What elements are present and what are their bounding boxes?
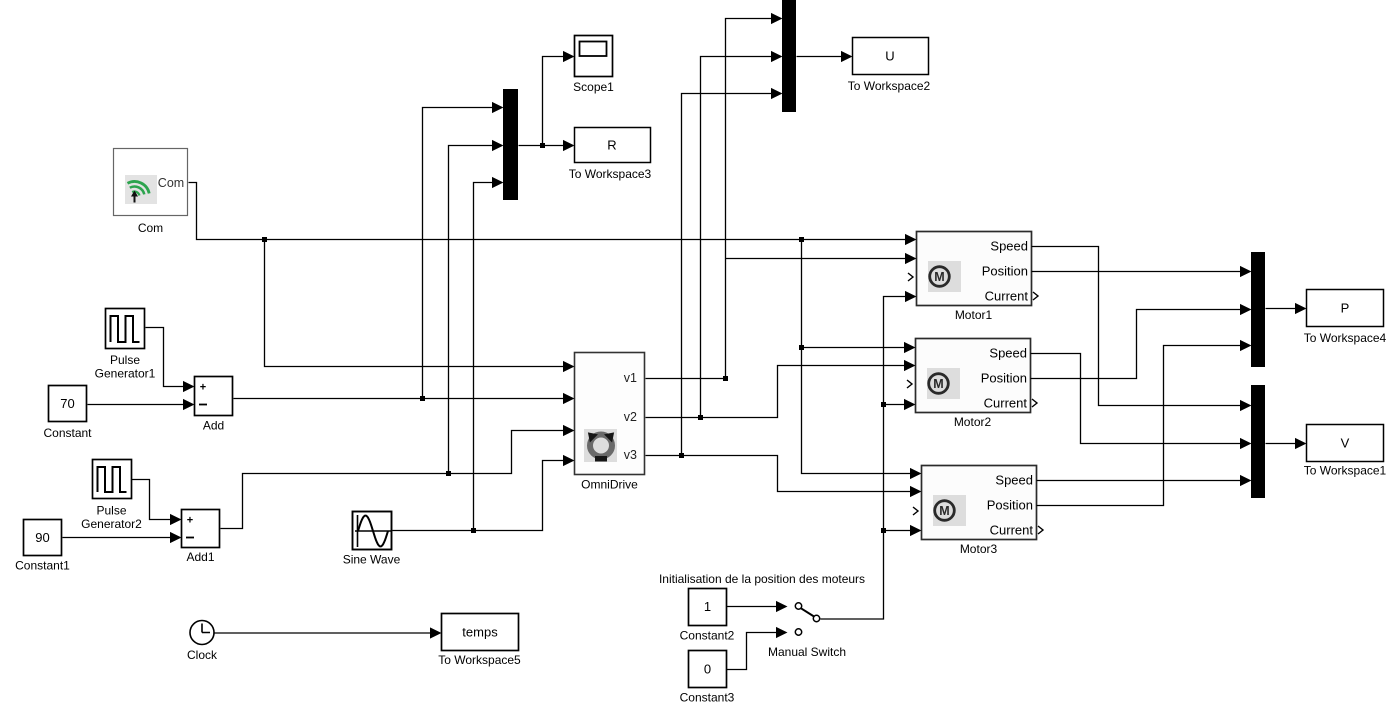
svg-text:R: R: [607, 138, 616, 153]
block Com (communication source): [114, 149, 188, 216]
wire OmniDrive v1 output to Mux2 input1 and Motor1 in2: [646, 13, 917, 379]
wire branch up to Mux1 input1: [423, 102, 504, 399]
svg-text:Constant: Constant: [43, 426, 92, 440]
svg-text:Speed: Speed: [990, 239, 1028, 254]
block Clock: [190, 621, 214, 645]
svg-text:Add: Add: [203, 419, 224, 433]
svg-text:Pulse: Pulse: [110, 353, 140, 367]
wire Add output to OmniDrive v2 input: [234, 393, 575, 404]
block Constant3 value 0: [689, 651, 727, 688]
block Add1 (sum): [182, 510, 220, 548]
junction Sine Wave to Mux1 branch: [471, 528, 476, 533]
wire branch down to OmniDrive v1 input: [265, 240, 575, 373]
svg-text:Com: Com: [138, 221, 163, 235]
wire Mux2 output to U To Workspace2: [797, 51, 853, 62]
junction Manual Switch line to Motor3 in3: [881, 528, 886, 533]
svg-text:To Workspace4: To Workspace4: [1304, 331, 1387, 345]
block R To Workspace3: [575, 128, 651, 163]
svg-text:To Workspace1: To Workspace1: [1304, 464, 1387, 478]
junction Com line to OmniDrive branch: [262, 237, 267, 242]
block Sine Wave: [353, 512, 392, 550]
svg-text:U: U: [885, 49, 894, 64]
wire Constant1 90 to Add1 minus input: [63, 532, 182, 543]
wire branch to Motor3 in3: [884, 525, 922, 536]
svg-text:OmniDrive: OmniDrive: [581, 478, 638, 492]
block Motor2: [907, 339, 1037, 413]
wire Mux1 output to R To Workspace3: [519, 140, 575, 151]
svg-text:To Workspace5: To Workspace5: [438, 653, 521, 667]
svg-text:v3: v3: [624, 448, 637, 462]
svg-text:Motor2: Motor2: [954, 415, 992, 429]
svg-text:Sine Wave: Sine Wave: [343, 553, 401, 567]
wire branch up to Mux1 input3: [474, 177, 504, 531]
wire Pulse Generator1 to Add plus input: [146, 328, 195, 393]
wire Constant2 to Manual Switch input1: [727, 606, 777, 608]
svg-text:Motor1: Motor1: [955, 308, 993, 322]
svg-text:Scope1: Scope1: [573, 80, 614, 94]
block Motor3: [913, 466, 1043, 540]
svg-text:Current: Current: [984, 396, 1028, 411]
block U To Workspace2: [853, 38, 929, 75]
wire Constant3 to Manual Switch input2: [727, 633, 777, 670]
block Pulse Generator2: [93, 460, 132, 499]
svg-text:Add1: Add1: [186, 550, 214, 564]
svg-text:v2: v2: [624, 410, 637, 424]
svg-text:90: 90: [35, 530, 49, 545]
wire OmniDrive v2 output to Motor2 in2: [646, 360, 916, 418]
wire Pulse Generator2 to Add1 plus input: [132, 480, 182, 526]
mux Mux2 (3-input): [782, 0, 796, 112]
svg-text:Generator1: Generator1: [95, 367, 156, 381]
svg-text:70: 70: [60, 396, 74, 411]
wire Motor3 Speed to Mux4 input3: [1037, 475, 1252, 486]
wire Motor1 Speed to Mux4 input1: [1032, 247, 1252, 412]
svg-text:Constant2: Constant2: [680, 629, 735, 643]
junction Motor2 in1 branch: [799, 345, 804, 350]
wire Motor3 Position to Mux3 input3: [1037, 340, 1252, 506]
wire Mux3 output to P To Workspace4: [1266, 303, 1307, 314]
junction OmniDrive v3 to Mux2 branch: [679, 453, 684, 458]
junction Manual Switch line to Motor2 in3: [881, 402, 886, 407]
wire Com output down and across to Motor1 in1: [189, 183, 917, 246]
wire Manual Switch output up to Motor1 in3: [821, 291, 917, 619]
svg-text:+: +: [187, 515, 193, 527]
wire branch up to Mux1 input2: [449, 140, 504, 474]
junction Add1 output to Mux1 branch: [446, 471, 451, 476]
svg-text:To Workspace2: To Workspace2: [848, 79, 931, 93]
svg-text:Clock: Clock: [187, 648, 218, 662]
wire Motor1 Position to Mux3 input1: [1032, 266, 1252, 277]
svg-text:M: M: [934, 270, 944, 284]
svg-text:Com: Com: [158, 176, 184, 190]
svg-text:V: V: [1341, 436, 1350, 451]
junction Mux1 output to Scope1 branch: [540, 143, 545, 148]
block Constant value 70: [49, 386, 87, 422]
block temps To Workspace5: [442, 614, 519, 651]
wire Constant 70 to Add minus input: [88, 399, 195, 410]
svg-text:Generator2: Generator2: [81, 517, 142, 531]
wire Add1 output to OmniDrive v3 input: [221, 425, 575, 529]
svg-text:Initialisation de la position: Initialisation de la position des moteur…: [659, 572, 865, 586]
svg-text:To Workspace3: To Workspace3: [569, 167, 652, 181]
junction Add output to Mux1 branch: [420, 396, 425, 401]
svg-text:P: P: [1341, 301, 1350, 316]
junction Com line to Motor2/Motor3 branch: [799, 237, 804, 242]
block Constant1 value 90: [24, 520, 62, 556]
svg-text:Speed: Speed: [989, 346, 1027, 361]
svg-text:Current: Current: [990, 523, 1034, 538]
mux Mux4 (speeds): [1251, 385, 1265, 498]
svg-text:1: 1: [704, 599, 711, 614]
block Scope1: [575, 36, 613, 77]
svg-text:Constant1: Constant1: [15, 559, 70, 573]
junction OmniDrive v2 to Mux2 branch: [698, 415, 703, 420]
svg-text:+: +: [200, 382, 206, 394]
svg-text:Position: Position: [982, 264, 1028, 279]
block Motor1: [908, 232, 1038, 306]
svg-text:v1: v1: [624, 371, 637, 385]
svg-text:Motor3: Motor3: [960, 542, 998, 556]
wire branch up to Mux2 input2: [701, 51, 783, 418]
block OmniDrive: [575, 353, 645, 475]
wire branch up to Scope1: [543, 51, 575, 146]
svg-text:Current: Current: [985, 289, 1029, 304]
block Constant2 value 1: [689, 589, 727, 626]
mux Mux1 (3-input): [503, 89, 518, 200]
svg-text:Manual Switch: Manual Switch: [768, 645, 846, 659]
svg-text:Position: Position: [981, 371, 1027, 386]
block P To Workspace4: [1307, 290, 1384, 327]
wire OmniDrive v3 output to Motor3 in2: [646, 456, 922, 498]
svg-text:Pulse: Pulse: [96, 504, 126, 518]
block Manual Switch: [776, 601, 820, 638]
wire branch to Motor2 in3: [884, 399, 916, 410]
wire Clock to temps To Workspace5: [215, 627, 442, 638]
wire branch down to Motor2 in1 and Motor3 in1: [802, 240, 922, 480]
svg-text:Position: Position: [987, 498, 1033, 513]
svg-text:temps: temps: [462, 625, 498, 640]
junction OmniDrive v1 node: [723, 376, 728, 381]
mux Mux3 (positions): [1251, 252, 1265, 367]
wire Sine Wave to OmniDrive input4: [393, 455, 575, 531]
wire Motor2 Speed to Mux4 input2: [1031, 354, 1252, 450]
block Add (sum): [195, 377, 233, 416]
svg-text:Speed: Speed: [995, 473, 1033, 488]
wire Mux4 output to V To Workspace1: [1266, 438, 1307, 449]
svg-text:M: M: [939, 504, 949, 518]
svg-text:M: M: [933, 377, 943, 391]
block V To Workspace1: [1307, 425, 1384, 462]
svg-text:Constant3: Constant3: [680, 691, 735, 705]
wire Motor2 Position to Mux3 input2: [1031, 304, 1252, 379]
wire branch up to Mux2 input3: [682, 88, 783, 456]
block Pulse Generator1: [106, 309, 145, 349]
svg-text:0: 0: [704, 662, 711, 677]
